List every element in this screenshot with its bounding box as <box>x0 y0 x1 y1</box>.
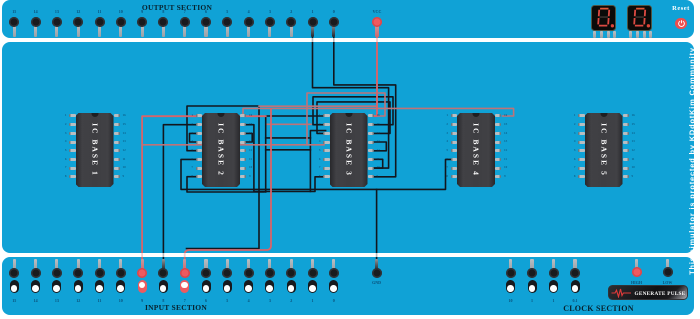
wire red over IC3 to pin16 <box>307 93 385 145</box>
IC base 3 <box>330 113 368 187</box>
output pin 5 <box>226 9 228 14</box>
input pin/switch 14 <box>34 259 37 270</box>
HIGH pin <box>635 259 638 270</box>
LOW pin <box>666 259 669 270</box>
input pin/switch 13 <box>55 259 58 270</box>
input pin/switch 11 <box>98 259 101 270</box>
IC base 1 <box>76 113 114 187</box>
input pin/switch 2 <box>290 259 293 270</box>
output pin 3 <box>269 9 271 14</box>
input pin/switch 4 <box>247 259 250 270</box>
wire IC2 pin5 top rect long drop <box>187 106 260 249</box>
clock switch 1 <box>530 259 533 270</box>
panel output section background <box>2 0 694 38</box>
IC base 4 <box>457 113 495 187</box>
wire GND up <box>376 189 378 273</box>
separator band top <box>0 38 700 42</box>
7-segment display 1 <box>591 5 616 32</box>
wire IC3 pin3 drop <box>310 131 325 192</box>
separator band bottom <box>0 253 700 257</box>
output pin 12 <box>76 9 80 14</box>
clock switch 1 <box>552 259 555 270</box>
input pin/switch 9 <box>141 259 144 270</box>
clock switch 0.1 <box>573 259 576 270</box>
wire red run IC2 pin16 to IC4 pin16 <box>243 108 514 116</box>
7-segment display 2 <box>627 5 652 32</box>
input pin/switch 7 <box>183 259 186 270</box>
wire gap cross link 2 <box>266 149 311 151</box>
input pin/switch 10 <box>119 259 122 270</box>
label CLOCK SECTION <box>563 304 634 313</box>
wire IC2 pin15 to IC3 pin8 <box>246 125 325 192</box>
wire IC2 pin6 to IC4 pin6 long run <box>181 159 453 189</box>
IC base 2 <box>202 113 240 187</box>
output pin 6 <box>205 9 207 14</box>
wire input-8 to IC2 pin2 <box>163 125 196 273</box>
input pin/switch 12 <box>77 259 80 270</box>
generate pulse button <box>608 285 688 300</box>
VCC pin <box>373 9 382 14</box>
output pin 13 <box>55 9 59 14</box>
output pin 4 <box>248 9 250 14</box>
label OUTPUT SECTION <box>142 3 212 12</box>
wire input-9 riser red under IC2 pins1-16 <box>142 116 266 273</box>
wire IC2 pin8 bottom wrap <box>187 177 264 192</box>
wire red long under IC2 to IC3 pin4 <box>142 144 324 146</box>
output pin 2 <box>290 9 292 14</box>
panel input/clock section background <box>2 257 694 315</box>
wire VCC red drop to IC3 pin16 <box>374 22 377 116</box>
input pin/switch 0 <box>332 259 335 270</box>
reset button <box>672 5 690 12</box>
wire IC3 right loop pins11-10 <box>374 159 383 168</box>
label INPUT SECTION <box>145 303 207 312</box>
wire IC2 left loop pins3-4 <box>190 133 197 142</box>
wire IC2 right loop pins14-13 <box>246 133 253 142</box>
wire gap cross link <box>266 137 311 139</box>
wire output-0 to IC3 pin9 <box>334 22 396 177</box>
watermark text <box>687 47 696 275</box>
output pin 0 <box>333 9 335 14</box>
input pin/switch 1 <box>311 259 314 270</box>
wire output-1 to IC3 pin10 <box>313 22 389 168</box>
wire IC3 top rect pins3-14 <box>317 102 390 133</box>
input pin/switch 8 <box>162 259 165 270</box>
input pin/switch 15 <box>13 259 16 270</box>
wire IC3 right loop pins13-12 <box>374 142 386 151</box>
panel main board background <box>2 42 694 253</box>
wire IC3 top rect pins2-15 <box>313 97 393 125</box>
clock switch 10 <box>509 259 512 270</box>
output pin 7 <box>184 9 186 14</box>
output pin 1 <box>312 9 314 14</box>
output pin 8 <box>162 9 164 14</box>
output pin 9 <box>141 9 143 14</box>
output pin 11 <box>98 9 102 14</box>
IC base 5 <box>585 113 623 187</box>
wire gap cross red link <box>266 123 311 125</box>
input pin/switch 5 <box>226 259 229 270</box>
wire input-7 riser red <box>185 108 271 273</box>
output pin 10 <box>119 9 123 14</box>
GND pin <box>375 259 378 270</box>
wire IC3 pin1 drop <box>266 116 324 192</box>
input pin/switch 6 <box>204 259 207 270</box>
input pin/switch 3 <box>268 259 271 270</box>
wire red parallel run <box>259 105 377 107</box>
output pin 14 <box>34 9 38 14</box>
output pin 15 <box>12 9 16 14</box>
